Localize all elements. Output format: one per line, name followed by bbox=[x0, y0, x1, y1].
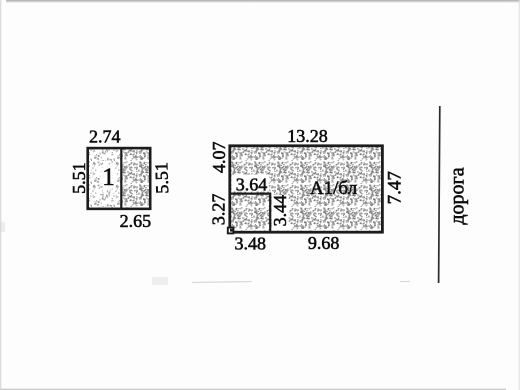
svg-text:3.48: 3.48 bbox=[235, 233, 267, 253]
svg-text:1: 1 bbox=[102, 164, 115, 191]
svg-text:7.47: 7.47 bbox=[385, 171, 406, 204]
svg-text:3.64: 3.64 bbox=[236, 174, 268, 194]
svg-text:дорога: дорога bbox=[447, 167, 469, 224]
svg-text:9.68: 9.68 bbox=[308, 233, 340, 253]
svg-text:2.65: 2.65 bbox=[120, 211, 152, 231]
svg-text:А1/бл: А1/бл bbox=[310, 178, 358, 199]
svg-text:5.51: 5.51 bbox=[69, 162, 89, 194]
svg-text:13.28: 13.28 bbox=[287, 126, 328, 146]
svg-text:4.07: 4.07 bbox=[209, 141, 229, 173]
svg-text:5.51: 5.51 bbox=[151, 162, 172, 194]
svg-text:3.27: 3.27 bbox=[209, 194, 229, 226]
svg-text:3.44: 3.44 bbox=[270, 195, 290, 227]
svg-text:2.74: 2.74 bbox=[89, 127, 121, 147]
